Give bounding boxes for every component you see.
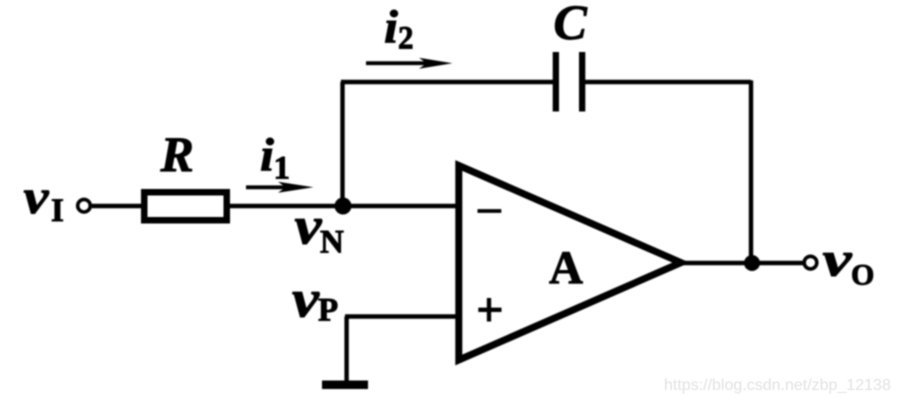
svg-text:https://blog.csdn.net/zbp_1213: https://blog.csdn.net/zbp_12138 — [664, 377, 891, 394]
